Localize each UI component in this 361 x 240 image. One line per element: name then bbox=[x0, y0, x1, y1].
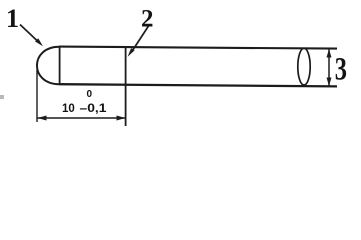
diameter dimension line bbox=[328, 50, 330, 86]
svg-text:3: 3 bbox=[335, 51, 347, 87]
svg-text:2: 2 bbox=[141, 6, 154, 33]
leader line 2 bbox=[132, 26, 149, 52]
length dimension line bbox=[38, 117, 126, 119]
arrowhead length dim right bbox=[117, 116, 126, 121]
arrowhead length dim left bbox=[38, 116, 47, 121]
svg-text:10: 10 bbox=[62, 103, 75, 115]
svg-text:1: 1 bbox=[6, 4, 19, 33]
tip tangent line bbox=[59, 47, 61, 85]
leader line 1 bbox=[20, 25, 38, 42]
break ellipse bbox=[298, 48, 310, 85]
scan speck bbox=[0, 95, 4, 99]
rounded tip arc bbox=[37, 47, 59, 84]
svg-text:0: 0 bbox=[87, 89, 93, 100]
arrowhead diameter dim top bbox=[327, 49, 332, 58]
rod bottom edge bbox=[59, 84, 337, 86]
section line 2 bbox=[125, 47, 127, 126]
svg-text:–0,1: –0,1 bbox=[80, 103, 108, 115]
arrowhead leader 2 bbox=[128, 48, 135, 57]
left extension line bbox=[36, 70, 38, 122]
rod top edge bbox=[59, 47, 337, 49]
arrowhead leader 1 bbox=[35, 38, 43, 46]
arrowhead diameter dim bottom bbox=[327, 78, 332, 87]
